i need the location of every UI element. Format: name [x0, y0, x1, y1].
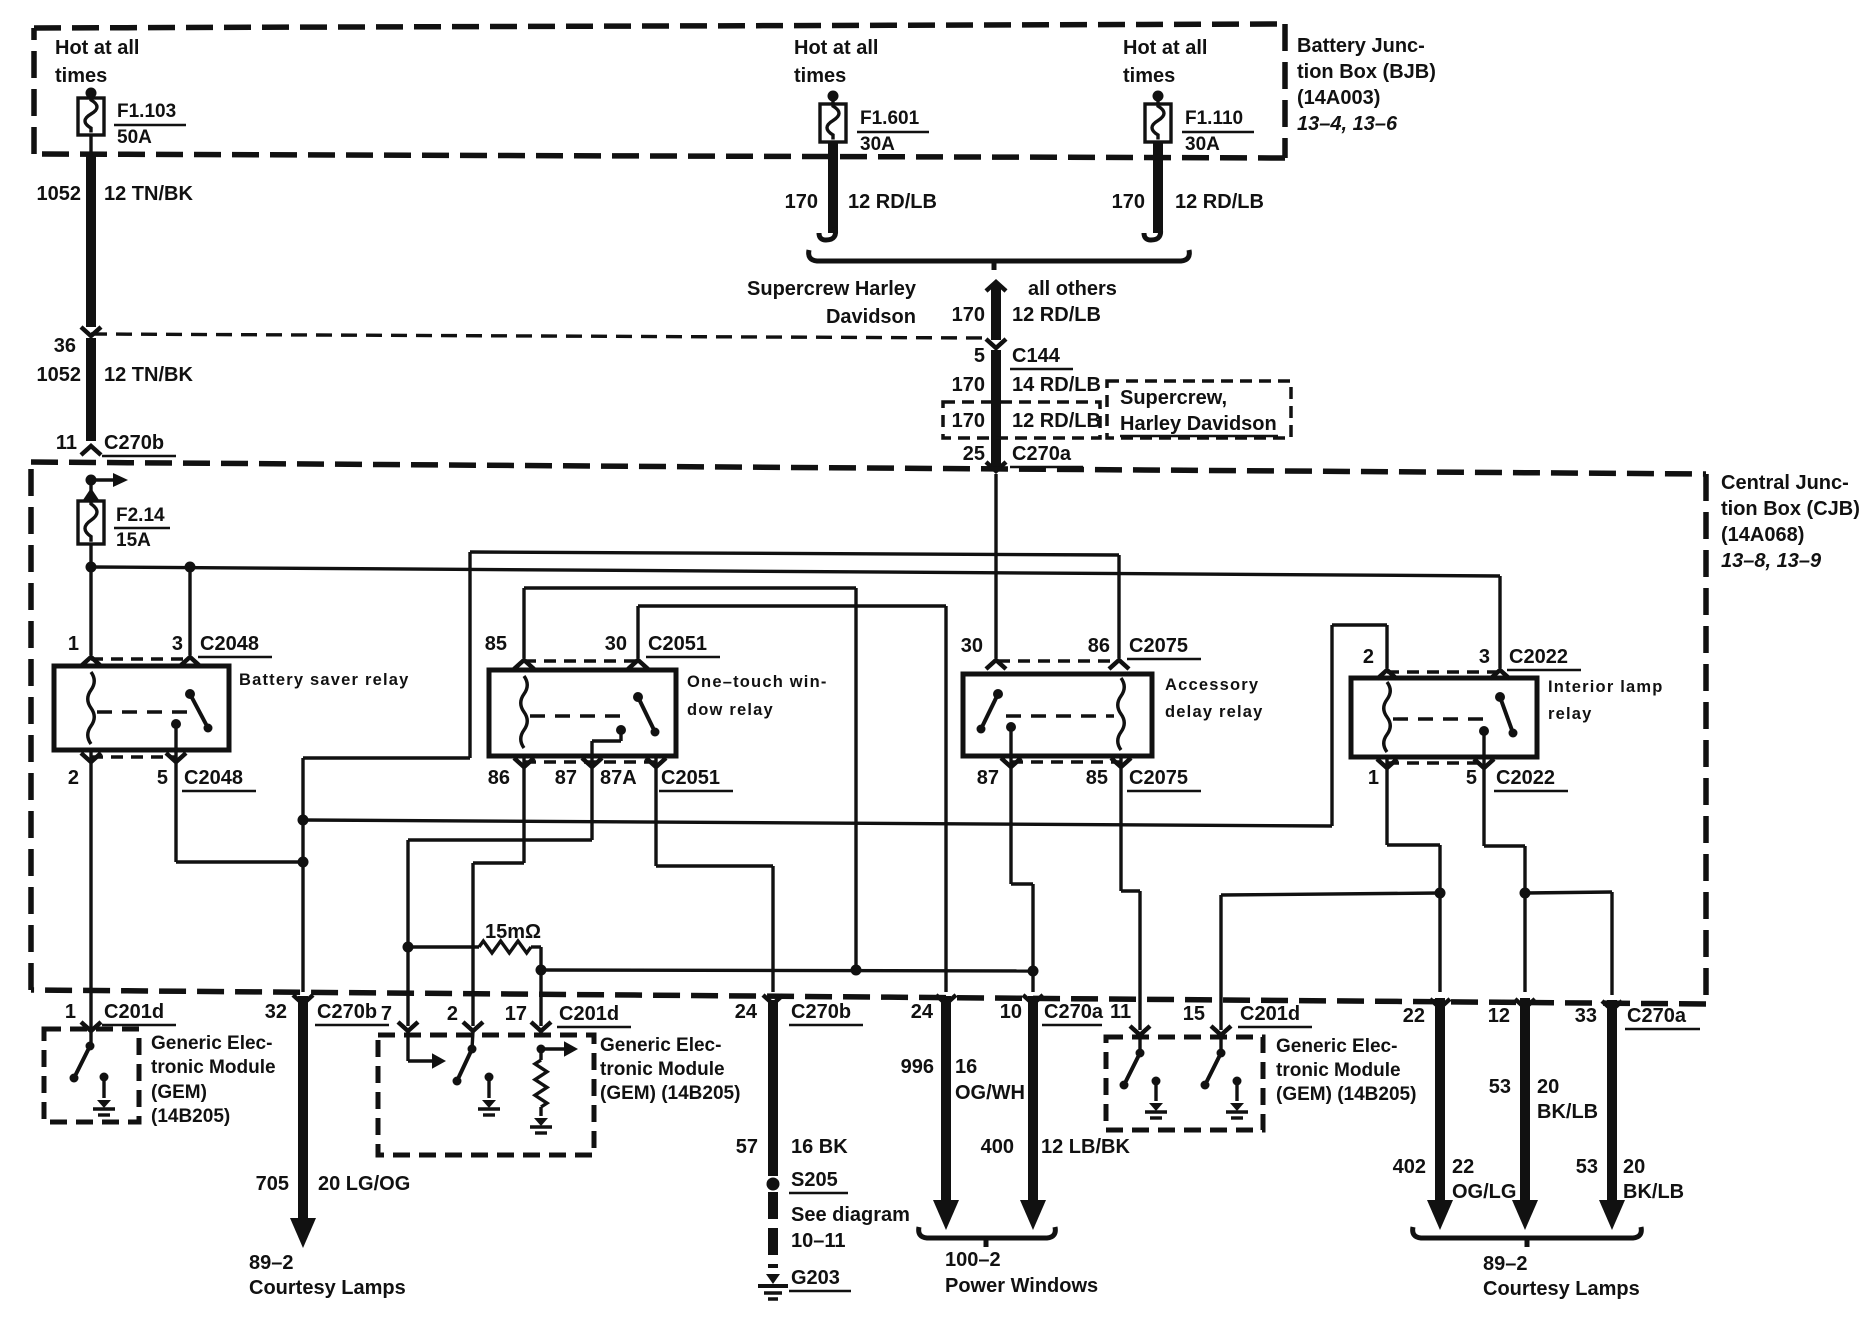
- svg-text:(14B205): (14B205): [151, 1106, 230, 1127]
- svg-text:C201d: C201d: [559, 1003, 619, 1025]
- svg-text:12 RD/LB: 12 RD/LB: [848, 191, 937, 213]
- svg-text:Hot at all: Hot at all: [55, 37, 139, 59]
- Central Junction Box (CJB) dashed enclosure: [31, 462, 1706, 474]
- node courtesy return junction: [1520, 888, 1531, 899]
- one-touch relay bottom pin arrows: [514, 758, 534, 767]
- svg-text:1052: 1052: [37, 183, 82, 205]
- node battery saver output to lamp bus: [298, 815, 309, 826]
- wire one-touch pin 87A to ground circuit: [654, 756, 657, 866]
- fuse F1.601 junction dot: [828, 91, 839, 102]
- svg-text:relay: relay: [1548, 705, 1593, 723]
- svg-text:C2051: C2051: [661, 767, 720, 789]
- ground G203 symbol: [766, 1274, 780, 1284]
- svg-text:30A: 30A: [860, 134, 895, 155]
- svg-text:3: 3: [172, 633, 183, 655]
- wire lamp bus to interior lamp relay pin 2: [303, 820, 1332, 826]
- GEM middle pin 7 input: [406, 1035, 409, 1061]
- svg-text:1: 1: [1368, 767, 1379, 789]
- GEM left switch: [89, 1026, 92, 1046]
- splice options brace: [809, 250, 1190, 261]
- one-touch relay bottom pin dashed line: [524, 760, 656, 763]
- svg-text:Courtesy Lamps: Courtesy Lamps: [249, 1277, 406, 1299]
- Generic Electronic Module (GEM) middle dashed box: [378, 1035, 594, 1155]
- fuse F1.601: [820, 104, 846, 142]
- GEM right pin 15 switch: [1219, 1037, 1222, 1053]
- accessory relay top pin dashed line: [998, 659, 1121, 662]
- wire bus tap down to battery saver relay pin 3: [188, 567, 191, 655]
- right courtesy brace: [1413, 1227, 1642, 1238]
- battery saver relay coil: [88, 672, 95, 744]
- svg-text:C2022: C2022: [1496, 767, 1555, 789]
- svg-text:5: 5: [974, 345, 985, 367]
- one-touch relay top pin dashed line: [524, 659, 638, 662]
- svg-text:C270b: C270b: [104, 432, 164, 454]
- svg-text:24: 24: [911, 1001, 934, 1023]
- dashed option box Supercrew Harley Davidson: [1107, 381, 1291, 438]
- svg-text:16 BK: 16 BK: [791, 1136, 848, 1158]
- resistor 15mohm: [408, 945, 479, 948]
- interior relay coil: [1384, 682, 1391, 752]
- battery saver relay switch pivot: [185, 689, 195, 699]
- svg-text:Generic Elec-: Generic Elec-: [1276, 1036, 1397, 1057]
- svg-text:tronic Module: tronic Module: [151, 1057, 276, 1078]
- interior relay bottom pin dashed line: [1387, 761, 1484, 764]
- wire battery-saver output node vertical: [301, 758, 304, 992]
- svg-text:86: 86: [488, 767, 510, 789]
- wire resistor output bus: [541, 970, 1033, 971]
- svg-text:89–2: 89–2: [249, 1252, 294, 1274]
- accessory relay dashed actuator line: [1006, 714, 1114, 717]
- wire tap to GEM pin 15: [1221, 893, 1440, 895]
- svg-text:12 RD/LB: 12 RD/LB: [1012, 304, 1101, 326]
- one-touch relay switch pivot: [633, 692, 643, 702]
- svg-text:10: 10: [1000, 1001, 1022, 1023]
- svg-text:85: 85: [1086, 767, 1108, 789]
- svg-text:F1.601: F1.601: [860, 108, 920, 129]
- svg-text:30: 30: [605, 633, 627, 655]
- wire circuit 170 12 RD/LB from F1.110 (thick, hook end): [1153, 142, 1163, 233]
- svg-text:16: 16: [955, 1056, 977, 1078]
- svg-text:2: 2: [1363, 646, 1374, 668]
- svg-text:Battery Junc-: Battery Junc-: [1297, 35, 1425, 57]
- GEM left switch contact to ground: [100, 1073, 109, 1082]
- relay U2 One-touch window relay box: [489, 670, 676, 756]
- GEM right pin 11 switch: [1138, 1037, 1141, 1053]
- svg-text:tion Box (CJB): tion Box (CJB): [1721, 498, 1860, 520]
- wire battery saver pin 5 to output node: [174, 750, 177, 862]
- svg-text:Supercrew Harley: Supercrew Harley: [747, 278, 917, 300]
- Generic Electronic Module (GEM) left dashed box: [44, 1029, 139, 1122]
- svg-text:22: 22: [1452, 1156, 1474, 1178]
- svg-text:BK/LB: BK/LB: [1537, 1101, 1598, 1123]
- fuse F1.103: [78, 98, 104, 135]
- wire circuit 170 12 RD/LB from F1.601 (thick, hook end): [828, 142, 838, 233]
- svg-text:85: 85: [485, 633, 507, 655]
- battery saver relay switch arm: [190, 694, 208, 728]
- wire one-touch pin 86 to GEM pin 2: [522, 756, 525, 863]
- wire bus from F2.14 to interior lamp relay pin 3: [91, 567, 1500, 576]
- battery saver relay bottom pin dashed line: [91, 755, 176, 758]
- svg-text:12 LB/BK: 12 LB/BK: [1041, 1136, 1130, 1158]
- svg-text:100–2: 100–2: [945, 1249, 1001, 1271]
- svg-text:11: 11: [56, 432, 77, 454]
- svg-text:17: 17: [505, 1003, 527, 1025]
- svg-text:tion Box (BJB): tion Box (BJB): [1297, 61, 1436, 83]
- wire one-touch pin 87 to GEM pin 7: [590, 756, 593, 840]
- svg-text:Battery saver relay: Battery saver relay: [239, 671, 410, 689]
- GEM middle pin 2 switch: [472, 1031, 473, 1049]
- svg-text:BK/LB: BK/LB: [1623, 1181, 1684, 1203]
- svg-text:dow relay: dow relay: [687, 701, 774, 719]
- svg-text:1052: 1052: [37, 364, 82, 386]
- svg-text:See diagram: See diagram: [791, 1204, 910, 1226]
- wire 170 12 RD/LB common feed to CJB (thick): [986, 282, 1006, 291]
- interior relay switch contact: [1479, 726, 1489, 736]
- svg-text:86: 86: [1088, 635, 1110, 657]
- svg-text:402: 402: [1393, 1156, 1426, 1178]
- svg-text:3: 3: [1479, 646, 1490, 668]
- wire dashed to ground G203: [768, 1192, 778, 1268]
- svg-text:50A: 50A: [117, 127, 152, 148]
- Generic Electronic Module (GEM) right dashed box: [1106, 1037, 1263, 1130]
- battery saver relay top pin dashed line: [91, 657, 191, 660]
- svg-text:C2051: C2051: [648, 633, 707, 655]
- svg-text:15: 15: [1183, 1003, 1205, 1025]
- svg-text:1: 1: [65, 1001, 76, 1023]
- wire interior pin 5 to courtesy return: [1482, 757, 1485, 846]
- interior relay switch pivot: [1495, 692, 1505, 702]
- svg-text:30: 30: [961, 635, 983, 657]
- wire accessory pin 85 to GEM pin 11: [1119, 756, 1122, 891]
- svg-text:C2022: C2022: [1509, 646, 1568, 668]
- svg-text:all others: all others: [1028, 278, 1117, 300]
- svg-text:87: 87: [555, 767, 577, 789]
- interior relay top pin dashed line: [1387, 670, 1500, 673]
- svg-text:Accessory: Accessory: [1165, 676, 1259, 694]
- wire circuit 53 20 BK/LB courtesy middle (thick): [1515, 999, 1535, 1008]
- accessory relay switch pivot: [993, 689, 1003, 699]
- svg-text:tronic Module: tronic Module: [1276, 1060, 1401, 1081]
- one-touch relay switch arm: [638, 697, 655, 732]
- svg-text:170: 170: [952, 304, 985, 326]
- node battery saver pin 3 tap: [185, 562, 196, 573]
- svg-text:87A: 87A: [600, 767, 637, 789]
- svg-text:30A: 30A: [1185, 134, 1220, 155]
- node CJB feed junction with branch arrow: [86, 475, 97, 486]
- svg-text:(14A068): (14A068): [1721, 524, 1804, 546]
- svg-text:11: 11: [1110, 1001, 1131, 1023]
- fuse F1.103 junction dot: [86, 88, 97, 99]
- node 15mohm left junction: [403, 942, 414, 953]
- svg-text:170: 170: [952, 374, 985, 396]
- svg-text:20: 20: [1623, 1156, 1645, 1178]
- GEM middle pin 17 resistor to ground: [539, 1049, 542, 1060]
- svg-text:(GEM) (14B205): (GEM) (14B205): [600, 1083, 740, 1104]
- svg-text:7: 7: [381, 1003, 392, 1025]
- svg-text:C2075: C2075: [1129, 635, 1188, 657]
- relay U1 Battery saver relay box: [54, 666, 229, 750]
- take-out dashed separator line: [91, 334, 987, 338]
- svg-text:C270a: C270a: [1012, 443, 1072, 465]
- wire circuit 57 16 BK to ground (thick): [763, 995, 783, 1004]
- svg-text:89–2: 89–2: [1483, 1253, 1528, 1275]
- svg-text:170: 170: [1112, 191, 1145, 213]
- svg-text:2: 2: [447, 1003, 458, 1025]
- node pin5 to courtesy feed junction: [298, 857, 309, 868]
- node one-touch 85 to resistor bus: [851, 965, 862, 976]
- node resistor output junction: [536, 965, 547, 976]
- svg-text:10–11: 10–11: [791, 1230, 846, 1252]
- svg-text:F2.14: F2.14: [116, 505, 165, 526]
- wire battery saver pin 2 to GEM pin 1: [89, 750, 92, 1026]
- svg-text:996: 996: [901, 1056, 934, 1078]
- svg-text:20: 20: [1537, 1076, 1559, 1098]
- svg-text:705: 705: [256, 1173, 289, 1195]
- svg-text:36: 36: [54, 335, 76, 357]
- svg-text:15A: 15A: [116, 530, 151, 551]
- wire accessory pin 87 to power-window circuit: [1009, 756, 1012, 884]
- svg-text:Interior lamp: Interior lamp: [1548, 678, 1664, 696]
- node accessory 87 to resistor bus: [1028, 966, 1039, 977]
- svg-text:Harley Davidson: Harley Davidson: [1120, 413, 1277, 435]
- svg-text:Generic Elec-: Generic Elec-: [600, 1035, 721, 1056]
- svg-text:times: times: [794, 65, 846, 87]
- relay U3 Accessory delay relay box: [963, 674, 1152, 756]
- GEM middle pin 17 input arrow: [541, 1047, 564, 1050]
- svg-text:Supercrew,: Supercrew,: [1120, 387, 1227, 409]
- accessory relay switch contact: [1006, 722, 1016, 732]
- wire return branch to second courtesy wire: [1525, 892, 1612, 893]
- splice S205: [767, 1178, 780, 1191]
- svg-text:delay relay: delay relay: [1165, 703, 1264, 721]
- svg-text:times: times: [55, 65, 107, 87]
- svg-text:14 RD/LB: 14 RD/LB: [1012, 374, 1101, 396]
- accessory relay bottom pin arrows: [1001, 758, 1021, 767]
- svg-text:1: 1: [68, 633, 79, 655]
- svg-text:12 TN/BK: 12 TN/BK: [104, 183, 193, 205]
- svg-text:F1.103: F1.103: [117, 101, 176, 122]
- power windows brace: [919, 1227, 1056, 1238]
- battery saver relay bottom pin arrows: [81, 753, 101, 762]
- accessory relay coil: [1118, 678, 1125, 750]
- wire battery saver feed down to relay pin 1: [89, 567, 92, 655]
- one-touch relay switch contact: [616, 725, 626, 735]
- svg-text:25: 25: [963, 443, 985, 465]
- one-touch relay coil: [521, 676, 528, 748]
- wire F2.14 to bus node: [89, 544, 92, 567]
- wire circuit 53 20 BK/LB courtesy right (thick): [1602, 1001, 1622, 1010]
- svg-text:53: 53: [1489, 1076, 1511, 1098]
- svg-text:C2048: C2048: [184, 767, 243, 789]
- fuse F1.110: [1145, 104, 1171, 142]
- fuse F2.14: [78, 501, 104, 544]
- wire circuit 705 20 LG/OG courtesy lamps (thick): [293, 995, 313, 1004]
- svg-text:13–4, 13–6: 13–4, 13–6: [1297, 113, 1398, 135]
- battery saver relay switch contact: [171, 719, 181, 729]
- wire circuit 400 12 LB/BK power windows (thick): [1023, 995, 1043, 1004]
- wire one-touch pin 85 loop to 15mohm node: [524, 586, 856, 589]
- Battery Junction Box (BJB) dashed enclosure: [34, 24, 1285, 28]
- svg-text:Generic Elec-: Generic Elec-: [151, 1033, 272, 1054]
- wire C270a feed down to accessory relay pin 30: [994, 474, 997, 658]
- accessory relay bottom pin dashed line: [1011, 760, 1121, 763]
- svg-text:C201d: C201d: [1240, 1003, 1300, 1025]
- svg-text:One–touch win-: One–touch win-: [687, 673, 828, 691]
- wire battery-saver output bus to accessory delay relay pin 86: [470, 552, 1119, 555]
- svg-text:13–8, 13–9: 13–8, 13–9: [1721, 550, 1822, 572]
- svg-text:tronic Module: tronic Module: [600, 1059, 725, 1080]
- svg-text:C270b: C270b: [791, 1001, 851, 1023]
- GEM right pin 11 contact to ground: [1152, 1077, 1161, 1086]
- svg-text:170: 170: [952, 410, 985, 432]
- one-touch relay dashed actuator line: [530, 714, 630, 717]
- svg-text:S205: S205: [791, 1169, 838, 1191]
- svg-text:Courtesy Lamps: Courtesy Lamps: [1483, 1278, 1640, 1300]
- svg-text:(GEM) (14B205): (GEM) (14B205): [1276, 1084, 1416, 1105]
- fuse F1.110 junction dot: [1153, 91, 1164, 102]
- dashed option box around 170 12 RD/LB: [943, 402, 1100, 438]
- svg-text:5: 5: [1466, 767, 1477, 789]
- interior relay dashed actuator line: [1393, 717, 1491, 720]
- svg-text:Central Junc-: Central Junc-: [1721, 472, 1849, 494]
- svg-text:400: 400: [981, 1136, 1014, 1158]
- wire interior pin 1 to courtesy lamp feed: [1385, 757, 1388, 845]
- wire circuit 1052 12 TN/BK from F1.103 (thick): [89, 135, 92, 155]
- accessory relay switch arm: [981, 694, 998, 729]
- GEM right pin 15 contact to ground: [1233, 1077, 1242, 1086]
- svg-text:C144: C144: [1012, 345, 1061, 367]
- relay U4 Interior lamp relay box: [1351, 678, 1537, 757]
- svg-text:33: 33: [1575, 1005, 1597, 1027]
- svg-text:C201d: C201d: [104, 1001, 164, 1023]
- GEM middle pin 17 node: [537, 1045, 546, 1054]
- svg-text:12 RD/LB: 12 RD/LB: [1175, 191, 1264, 213]
- svg-text:22: 22: [1403, 1005, 1425, 1027]
- svg-text:times: times: [1123, 65, 1175, 87]
- wire resistor node down to GEM pin 17: [539, 970, 542, 1026]
- svg-text:OG/LG: OG/LG: [1452, 1181, 1516, 1203]
- svg-text:(14A003): (14A003): [1297, 87, 1380, 109]
- svg-text:20 LG/OG: 20 LG/OG: [318, 1173, 410, 1195]
- battery saver relay dashed actuator line: [97, 710, 193, 713]
- svg-text:Power Windows: Power Windows: [945, 1275, 1098, 1297]
- svg-text:24: 24: [735, 1001, 758, 1023]
- svg-text:5: 5: [157, 767, 168, 789]
- svg-text:C270a: C270a: [1627, 1005, 1687, 1027]
- wire one-touch pin 30 loop to power-window feed: [638, 604, 946, 607]
- svg-text:OG/WH: OG/WH: [955, 1082, 1025, 1104]
- interior relay switch arm: [1500, 697, 1513, 733]
- svg-text:Hot at all: Hot at all: [794, 37, 878, 59]
- svg-text:12 TN/BK: 12 TN/BK: [104, 364, 193, 386]
- node F2.14 output junction: [86, 562, 97, 573]
- svg-text:G203: G203: [791, 1267, 840, 1289]
- svg-text:F1.110: F1.110: [1185, 108, 1243, 129]
- svg-text:15mΩ: 15mΩ: [485, 921, 541, 943]
- svg-text:C270b: C270b: [317, 1001, 377, 1023]
- svg-text:Hot at all: Hot at all: [1123, 37, 1207, 59]
- svg-text:53: 53: [1576, 1156, 1598, 1178]
- wire circuit 402 22 OG/LG courtesy (thick): [1430, 999, 1450, 1008]
- wire into fuse F2.14: [89, 480, 92, 499]
- svg-text:C270a: C270a: [1044, 1001, 1104, 1023]
- svg-text:32: 32: [265, 1001, 287, 1023]
- svg-text:Davidson: Davidson: [826, 306, 916, 328]
- svg-text:2: 2: [68, 767, 79, 789]
- svg-text:(GEM): (GEM): [151, 1082, 207, 1103]
- svg-text:87: 87: [977, 767, 999, 789]
- node courtesy feed to GEM pin 15 tap: [1435, 888, 1446, 899]
- svg-text:170: 170: [785, 191, 818, 213]
- svg-text:C2075: C2075: [1129, 767, 1188, 789]
- wire circuit 996 16 OG/WH power windows (thick): [936, 995, 956, 1004]
- svg-text:57: 57: [736, 1136, 758, 1158]
- svg-text:12: 12: [1488, 1005, 1510, 1027]
- interior relay bottom pin arrows: [1377, 759, 1397, 768]
- svg-text:C2048: C2048: [200, 633, 259, 655]
- GEM middle pin 2 contact to ground: [485, 1073, 494, 1082]
- svg-text:12 RD/LB: 12 RD/LB: [1012, 410, 1101, 432]
